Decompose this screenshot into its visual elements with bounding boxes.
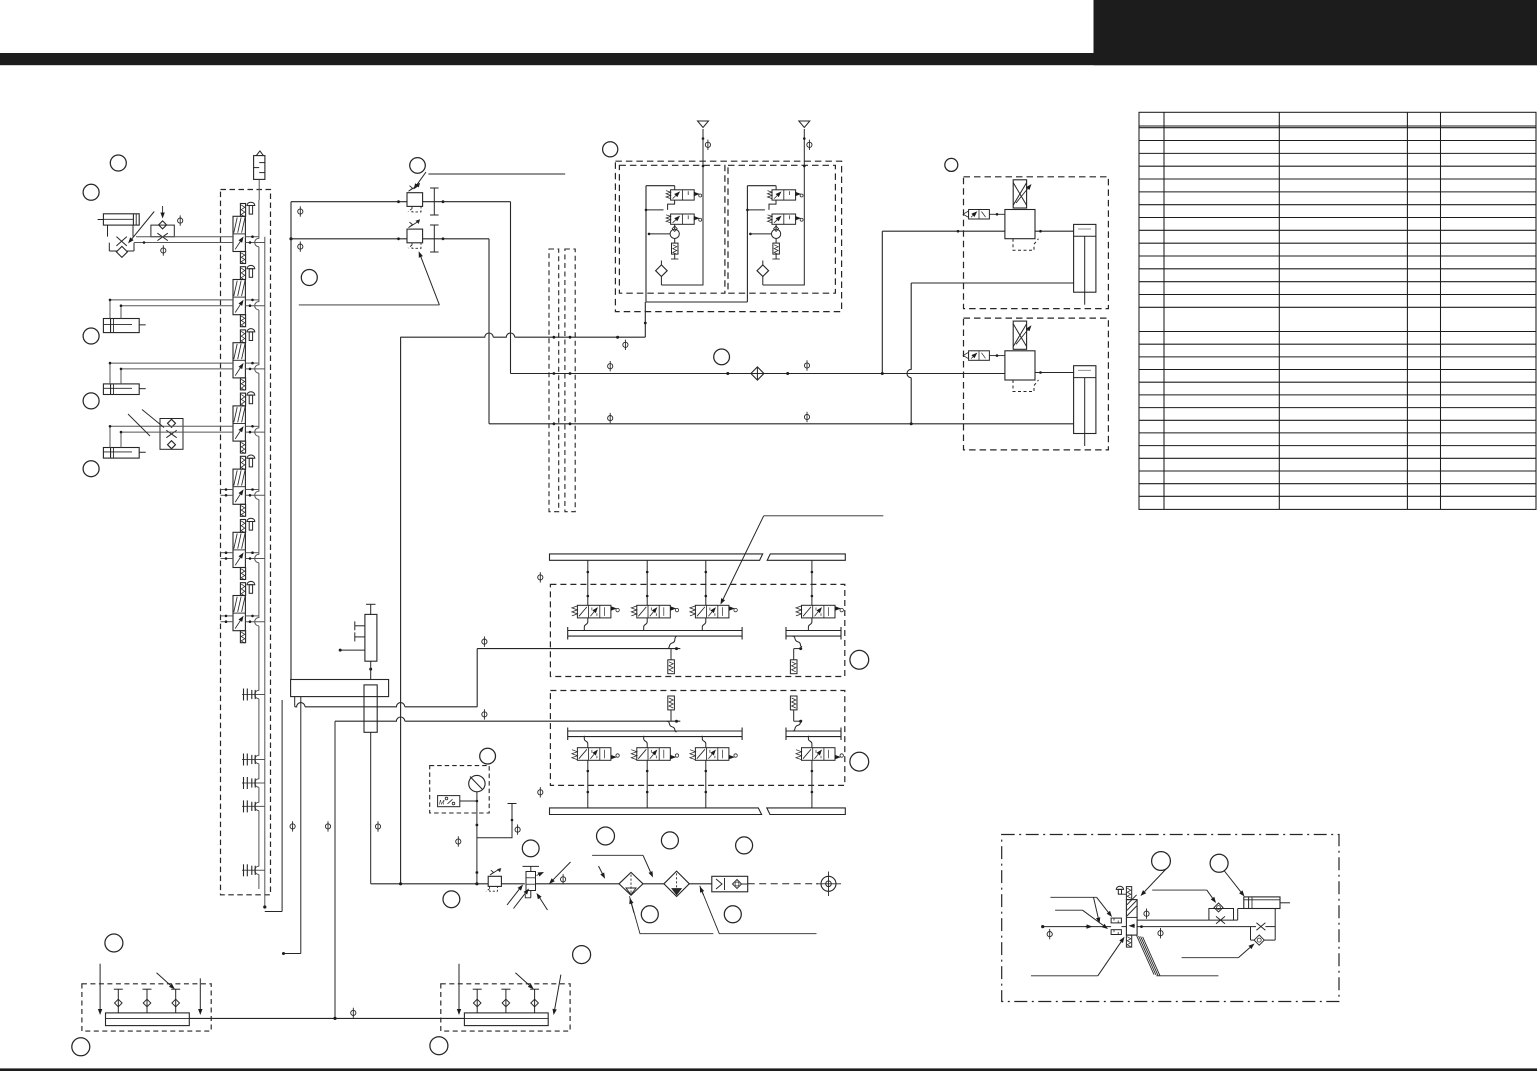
drop line MV4 [811,560,813,605]
callout balloon (check valve) [714,349,730,365]
throttle check unit upper [1209,903,1234,924]
lines to cylinder Z3 [110,362,233,364]
callout balloon (door units) [945,158,958,171]
L1 riser to manifold test line [476,649,478,707]
main riser [290,202,292,680]
junction block J1 [339,604,377,661]
lower check loop [1251,909,1276,946]
drop line MV6 [646,760,648,808]
drop wire e (dryer feed to service line) [400,337,402,884]
pressure regulator D2 [407,220,423,249]
line filter [664,871,689,896]
callout balloon [83,393,99,409]
leader [142,410,164,428]
callout balloon [83,328,99,344]
callout balloon (throttle) [1210,854,1228,872]
distribution block (wide) [291,680,389,697]
callout balloon [83,461,99,477]
solenoid valve MV7 (manifold 2) [690,748,737,761]
port lines valve SV4 [245,425,259,427]
leader [1182,957,1239,959]
leader [553,862,570,880]
supply rail (vertical, valve block) [255,200,259,889]
leader [1094,897,1099,917]
5/2-way valve SV2 (door 1) [233,265,255,327]
wire [1234,919,1238,921]
line size marker [804,412,809,422]
drop from D2 [488,239,490,424]
node bottom line [333,1017,336,1020]
door unit 1 (front door) [963,177,1108,309]
vent line 2 [803,129,805,285]
upper mounting rail B [767,554,845,560]
line size marker [161,245,166,255]
callout balloon [724,906,741,923]
leader to throttle [132,212,154,239]
fill point symbol [816,872,841,897]
line Z1 port B [134,242,233,244]
coupling [242,689,265,701]
line size marker [623,340,628,350]
solenoid valve MV3 (manifold 1) [690,605,737,618]
callout balloon [522,840,539,857]
5/2-way valve SV6 (spare A) [233,518,255,580]
callout balloon (manifold 2) [850,752,869,771]
test line into manifold 1 [477,648,680,650]
lower mounting rail B [767,808,846,815]
drop from D1 [510,202,512,374]
emergency valve (slide) [1126,887,1137,948]
axle manifold right [441,964,570,1031]
relief/filter F1 [670,649,672,660]
wire to separator [536,883,620,885]
pressure regulator D1 [407,183,423,212]
quick exhaust / throttle under cylinder Z1 [108,225,135,257]
lower mounting rail A [550,808,762,815]
callout balloon (switch) [443,891,460,908]
line size marker [561,874,566,884]
line size marker [608,361,613,371]
drop wire d (to service line) [370,732,372,884]
line size marker [807,140,812,150]
5/2-way valve SV1 (hand lever) [233,202,255,264]
5/2-way valve SV3 (door 2) [233,329,255,391]
supply line to regulator D2 [291,238,407,240]
drop line MV5 [587,760,589,808]
cylinder Z3 [103,384,145,395]
solenoid manifold box 2 (dashed) [550,691,844,786]
pressure switch box (dashed) [430,766,490,813]
drop wire c (to bottom manifold line) [334,721,336,1018]
svg-text:M: M [439,800,445,807]
return rail (vertical, valve block) [264,237,266,907]
air dryer assembly outer box [615,161,841,311]
lines to cylinder Z2 [110,299,233,301]
manifold 1 rail lines [568,630,742,632]
leader to separator top [592,854,643,856]
callout balloon [573,946,591,964]
riser to door valve DV1 lower [907,283,911,424]
lines to cylinder Z4 [110,425,233,427]
bottom distribution line [189,1017,464,1019]
leader [507,889,519,905]
leader [428,173,565,175]
line size marker [608,413,613,423]
coupling [242,754,265,766]
coupling [242,864,265,876]
check valve in door supply line [751,367,764,380]
drop line MV8 [811,760,813,808]
emergency cylinder [1244,897,1290,909]
charging/test coupling [712,876,748,892]
line size marker [456,836,461,846]
port lines valve SV7 [221,615,234,617]
line D1 out [423,201,511,203]
header bar [0,53,1537,65]
5/2-way valve SV7 (spare B) [233,581,255,643]
leader [514,893,526,908]
cylinder Z4 [103,448,145,459]
leader to D2 pilot [299,304,440,306]
relief/filter F2 [792,636,802,647]
leader to separator drain [630,896,714,933]
air dryer inner box 2 [728,165,835,293]
vent line 1 [702,129,704,285]
leader lines (detail box) [1050,896,1096,898]
callout balloon (regulators) [410,158,426,174]
callout balloon (air dryer) [603,142,618,157]
port lines valve SV3 [245,362,259,364]
line size marker [515,824,520,834]
emergency door valve detail box (dash-dot) [1002,835,1339,1002]
check/throttle unit at cylinder Z1 [151,206,174,241]
port lines valve SV6 [221,552,234,554]
wire [501,883,524,885]
callout balloon [736,837,753,854]
dual check/throttle unit at cylinder Z4 [160,419,183,450]
line D2 out [423,238,489,240]
5/2-way valve SV4 (door 3) [233,392,255,454]
air dryer circuit 1 [645,186,704,302]
connection line to fill point (dashed) [748,883,818,885]
callout balloon [661,832,678,849]
drop wire a (to coupling rail) [281,700,283,912]
wire J1 to block [370,661,372,679]
service line [371,883,489,885]
air dryer inner box 1 [619,165,725,293]
line size marker [1047,929,1052,939]
door unit 2 (rear door) [963,318,1108,450]
line Z1 port A [136,236,233,238]
upper mounting rail A [550,554,763,560]
gauge drop line [476,792,478,884]
wire [643,883,664,885]
bulkhead pass dashed channels [549,249,559,512]
callout balloon [72,1038,90,1056]
line size marker [178,215,183,225]
riser to door valve DV1 [881,231,883,373]
coupling [242,777,265,789]
drop line MV3 [705,560,707,605]
linkage hatch band [1137,936,1160,976]
port lines valve SV1 [245,236,259,238]
leader arrow to D1 [417,172,426,185]
leader tail [1156,975,1218,977]
valve block enclosure (dashed) [221,190,271,895]
hose to manifold 1 [667,636,677,649]
small pressure regulator D3 [486,868,501,891]
callout balloon [641,906,658,923]
drop wire b (to axle manifold feed) [300,697,302,954]
solenoid manifold box 1 (dashed) [550,584,844,676]
pressure gauge [469,775,485,791]
solenoid valve MV1 (manifold 1) [572,605,619,618]
cylinder Z2 [103,319,145,333]
test line into manifold 2 [335,717,680,721]
5/2-way valve SV5 (ramp) [233,455,255,517]
drop line MV2 [646,560,648,605]
line size marker [375,821,380,831]
line L1 [295,703,478,707]
exhaust vent [799,121,810,128]
water separator [619,872,643,895]
push button on emergency valve [1116,886,1126,894]
gauge port T at D1 [433,188,435,215]
bottom line door unit 1 [911,282,1073,284]
leader [1031,975,1098,977]
leader to manifold valves [764,515,884,517]
line size marker [290,821,295,831]
main through line [1043,926,1111,928]
solenoid valve MV4 (manifold 1) [796,605,843,618]
header title block (top right) [1094,0,1537,65]
line size marker [1158,928,1163,938]
relief/filter F3 [668,696,675,710]
door supply line 1 [511,373,1005,375]
wire [689,883,712,885]
line size marker [538,572,543,582]
supply line to regulator D1 [291,201,407,203]
dryer outlet drop [644,302,646,337]
leader [599,866,603,874]
node at J1 outlet [369,668,372,671]
callout balloon (manifold 1) [850,650,869,669]
axle manifold left [82,964,211,1031]
callout balloon (lower rail) [597,827,615,845]
drop line MV1 [587,560,589,605]
gauge port stub [477,804,512,838]
exhaust vent [698,121,709,128]
parts list table [1139,112,1536,509]
callout balloon [83,184,99,200]
coupling [242,800,265,812]
line size marker [1144,909,1149,919]
solenoid valve MV8 (manifold 2) [796,748,843,761]
leader to coupling [700,886,817,934]
door supply line 2 [489,423,1074,425]
callout balloon (gauge) [480,748,496,764]
leader [540,898,548,910]
footer rule [0,1068,1537,1071]
line size marker [298,206,303,216]
line size marker [804,360,809,370]
port lines valve SV5 [221,489,234,491]
manifold 2 rail lines [568,730,742,732]
port lines valve SV2 [245,299,259,301]
cylinder Z1 (door drive 1) [98,214,140,225]
solenoid valve MV6 (manifold 2) [631,748,678,761]
gauge port T at D2 [433,225,435,252]
connector blocks [1111,918,1121,934]
callout balloon [301,270,317,286]
pressure switch [438,796,460,807]
drop line MV7 [705,760,707,808]
callout balloon [430,1037,448,1055]
solenoid valve MV2 (manifold 1) [631,605,678,618]
wire switch to gauge line [460,800,477,802]
line size marker [705,140,710,150]
throttle X on main line [1256,923,1265,930]
upper branch line [1137,919,1209,921]
leader [1145,869,1167,892]
supply line from air dryer (to riser drop) [400,333,645,337]
exhaust silencer on valve block [254,156,265,180]
callout balloon (emergency valve) [1152,852,1171,871]
relief/filter F4 [790,696,797,710]
line size marker [482,709,487,719]
line size marker [538,787,543,797]
distribution block (narrow vertical) [364,685,377,732]
line size marker [325,821,330,831]
callout balloon [105,934,123,952]
line size marker [351,1008,356,1018]
solenoid valve MV5 (manifold 2) [572,748,619,761]
feed line door unit 1 [882,230,1005,232]
leader [1224,871,1241,892]
dryer interconnect [646,301,747,303]
line size marker [298,241,303,251]
air dryer circuit 2 [746,186,805,302]
leader to upper check [1152,889,1207,891]
line size marker [482,636,487,646]
leader [128,414,150,436]
callout balloon [110,155,126,171]
shutoff/drain valve V2 [523,866,545,897]
